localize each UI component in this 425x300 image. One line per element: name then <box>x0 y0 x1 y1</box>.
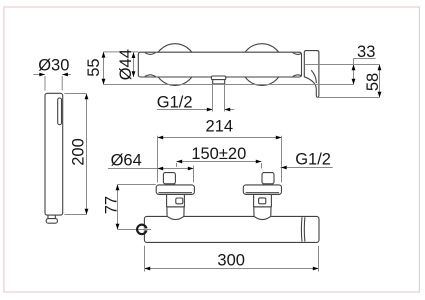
dim 300 lines <box>145 246 319 272</box>
dim 58 lines <box>378 65 382 98</box>
right handle connector <box>254 207 271 220</box>
dim 55 lines <box>102 52 139 85</box>
dim 33 lines <box>352 59 376 85</box>
leader G1/2 front view <box>280 166 332 170</box>
right escutcheon <box>243 185 281 195</box>
top view mixer bar <box>138 52 301 77</box>
leader G1/2 top view <box>157 85 235 112</box>
dim 200 lines <box>65 94 89 215</box>
right handle button <box>259 198 266 204</box>
svg-text:Ø44: Ø44 <box>117 49 135 80</box>
right handle cartridge <box>254 194 272 207</box>
left knob base <box>165 184 174 185</box>
svg-text:Ø30: Ø30 <box>38 57 69 75</box>
left handle connector <box>167 207 184 220</box>
spout axis reference line <box>305 64 380 66</box>
reference line under body to 33 dim <box>104 84 354 86</box>
right knob base <box>263 184 272 185</box>
dim Ø30 lines <box>34 73 71 91</box>
dim 214 lines <box>158 136 282 183</box>
svg-text:300: 300 <box>217 252 245 270</box>
top view left cap seam <box>145 53 156 55</box>
top view spout inner curve <box>311 70 316 83</box>
top view escutcheon circle right <box>241 44 283 86</box>
svg-text:G1/2: G1/2 <box>295 151 331 169</box>
top view right cap seam <box>293 53 301 55</box>
spout tip reference line <box>317 97 380 99</box>
holder ring <box>137 225 146 234</box>
svg-text:G1/2: G1/2 <box>157 94 193 112</box>
right knob <box>262 173 274 184</box>
left escutcheon lip <box>159 192 193 194</box>
left handle button <box>176 198 183 204</box>
dim Ø64 lines <box>108 166 194 183</box>
dim 150±20 lines <box>177 160 262 169</box>
top view outlet lip <box>211 76 225 80</box>
svg-text:Ø64: Ø64 <box>111 151 142 169</box>
left knob <box>163 173 175 184</box>
svg-text:150±20: 150±20 <box>191 145 246 163</box>
dim Ø44 lines <box>132 52 136 77</box>
svg-text:55: 55 <box>85 58 103 76</box>
top view escutcheon circle left <box>154 44 196 86</box>
front view mixer body <box>144 216 319 242</box>
dim 77 lines <box>116 185 156 230</box>
hand shower body <box>45 93 63 215</box>
hand shower nozzle neck <box>48 215 55 219</box>
top view outlet body <box>213 80 225 84</box>
svg-text:214: 214 <box>206 117 234 135</box>
right escutcheon lip <box>246 192 280 194</box>
hand shower spray slot <box>58 98 62 125</box>
hand shower nozzle cap <box>46 219 57 224</box>
front view body right seam <box>300 217 303 241</box>
svg-text:200: 200 <box>70 138 88 166</box>
holder ring blank <box>144 223 157 236</box>
top view wall flange and spout <box>304 51 319 98</box>
left handle cartridge <box>167 194 185 207</box>
left escutcheon <box>156 185 194 195</box>
